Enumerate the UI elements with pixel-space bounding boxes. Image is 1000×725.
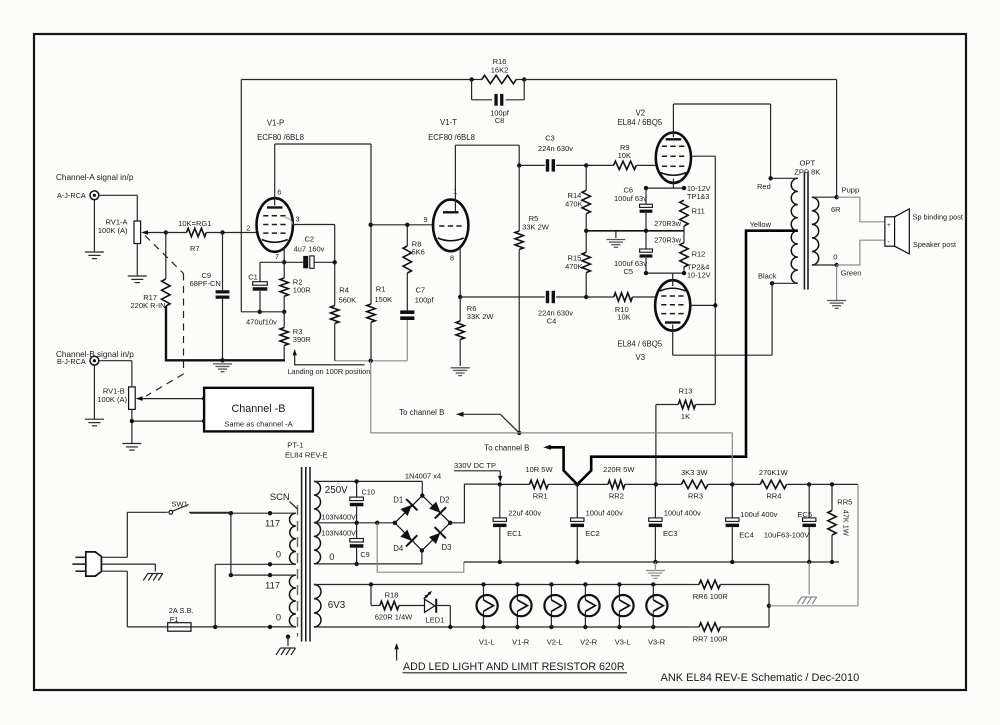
svg-text:V2: V2	[636, 109, 646, 118]
svg-text:117: 117	[265, 518, 280, 528]
resistor R1 150K	[370, 144, 372, 225]
wire V2 plate to OPT Red	[672, 104, 674, 137]
node R7/C9 junction	[220, 230, 224, 234]
wire LED to heater return	[436, 605, 450, 607]
svg-text:4u7 160v: 4u7 160v	[294, 244, 325, 253]
svg-text:V1-T: V1-T	[440, 118, 457, 127]
diode D2	[429, 502, 440, 513]
resistor R10 10K	[586, 296, 614, 298]
svg-text:V1-L: V1-L	[479, 638, 495, 647]
wire V3 screen	[690, 304, 715, 306]
svg-text:Channel-A signal in/p: Channel-A signal in/p	[56, 173, 134, 182]
node EC3 bottom	[653, 560, 657, 564]
secondary bottom lead 0	[812, 264, 837, 266]
arrow to channel B upper	[462, 413, 501, 415]
svg-text:10K: 10K	[617, 313, 630, 322]
svg-text:10uF63-100V: 10uF63-100V	[764, 530, 809, 539]
wire 0 to bridge bottom	[421, 551, 423, 564]
node EC4 bottom	[730, 560, 734, 564]
svg-text:V1-R: V1-R	[512, 638, 530, 647]
capacitor C2 4u7	[303, 256, 308, 268]
capacitor C9 psu	[356, 523, 358, 539]
ganged pot dashed link	[145, 236, 184, 397]
V1-P plate supply line	[275, 143, 371, 145]
svg-text:33K 2W: 33K 2W	[522, 222, 550, 231]
node C10 top	[354, 479, 358, 483]
svg-text:To channel B: To channel B	[399, 408, 444, 417]
capacitor EC3 100uf	[654, 484, 656, 518]
V1-P screen wire pin 3	[285, 218, 293, 225]
speaker binding post	[885, 217, 895, 246]
node channel B tap	[517, 431, 521, 435]
wire Red lead	[771, 177, 798, 179]
lamp V2-R	[583, 582, 587, 586]
svg-text:To channel B: To channel B	[484, 443, 529, 452]
svg-text:9: 9	[424, 215, 428, 224]
PT secondary 250V winding	[314, 481, 321, 564]
node C9 ground rail	[220, 358, 224, 362]
svg-text:16K2: 16K2	[491, 65, 509, 74]
svg-text:100K (A): 100K (A)	[98, 226, 128, 235]
wire jack A to RV1-A	[99, 194, 138, 196]
node R2/R3 junction	[282, 310, 286, 314]
resistor R3 390R	[283, 312, 285, 328]
OPT core	[803, 172, 805, 290]
resistor R5 33K 2W	[518, 165, 520, 231]
svg-text:100uf 400v: 100uf 400v	[664, 508, 701, 517]
svg-text:C7: C7	[416, 285, 426, 294]
resistor RR5 47K	[831, 484, 833, 510]
wire R16 right to OPT Pupp tap	[524, 79, 836, 81]
svg-text:TP1&3: TP1&3	[687, 192, 709, 201]
node C3 tap	[517, 163, 521, 167]
svg-text:R12: R12	[692, 249, 706, 258]
resistor R6 33K 2W	[459, 297, 461, 321]
B+ rail RR1	[500, 483, 530, 485]
node mid divider	[584, 229, 588, 233]
svg-text:V3: V3	[636, 353, 646, 362]
wire B+ feed down to channel B line	[370, 361, 372, 433]
wire RV1-B bottom to box	[132, 420, 204, 422]
svg-text:620R 1/4W: 620R 1/4W	[375, 613, 413, 622]
lamp V2-L	[549, 582, 553, 586]
wire cathode node	[260, 261, 303, 263]
svg-text:EL84 / 6BQ5: EL84 / 6BQ5	[617, 118, 662, 127]
ground under RV1-B	[122, 444, 141, 451]
wire feedback node	[241, 311, 284, 313]
svg-text:ECF80 /6BL8: ECF80 /6BL8	[257, 133, 304, 142]
resistor R16	[482, 75, 517, 83]
svg-text:2A S.B.: 2A S.B.	[169, 606, 194, 615]
capacitor C1 470uf	[259, 262, 261, 281]
wire R13 left down to B+ rail	[655, 405, 657, 485]
svg-text:C5: C5	[624, 267, 634, 276]
svg-text:C3: C3	[545, 134, 555, 143]
chassis ground psu	[808, 562, 810, 595]
resistor RR7 100R	[690, 626, 699, 628]
center tap lead	[314, 522, 395, 524]
node C2 right / R4 top	[333, 260, 337, 264]
node 330V rail start	[498, 482, 502, 486]
PT shield SCN dashed	[297, 505, 299, 637]
svg-text:390R: 390R	[293, 335, 312, 344]
svg-text:3: 3	[296, 215, 300, 224]
node RR2/RR3	[654, 482, 658, 486]
PT secondary 6V3 winding	[314, 585, 321, 628]
svg-text:D3: D3	[442, 543, 452, 552]
resistor R17 220K	[165, 233, 167, 280]
svg-text:C9: C9	[360, 550, 369, 559]
svg-text:7: 7	[275, 252, 279, 261]
lamp V3-L	[617, 582, 621, 586]
svg-text:Yellow: Yellow	[750, 220, 772, 229]
wire 0 to ground	[836, 265, 838, 300]
wire feedback top horizontal	[241, 79, 471, 81]
node cathode/C4/R6	[458, 295, 462, 299]
resistor R9 10K	[586, 164, 613, 166]
svg-text:100pf: 100pf	[415, 296, 435, 305]
capacitor C8 parallel to R16	[471, 80, 473, 100]
node C10/C9 junction	[354, 521, 358, 525]
pentode V2	[656, 133, 691, 183]
node Red	[768, 176, 772, 180]
svg-text:33K 2W: 33K 2W	[467, 312, 495, 321]
wire live	[101, 556, 127, 558]
ground stub mid rail	[615, 231, 617, 238]
node C6 bottom	[644, 229, 648, 233]
svg-text:6: 6	[277, 187, 281, 196]
wire jack B to RV1-B	[99, 360, 132, 362]
wire plate line down / R5 chain	[518, 145, 520, 165]
svg-text:330V DC TP: 330V DC TP	[454, 461, 496, 470]
resistor R2 100R	[283, 262, 285, 278]
svg-text:10R 5W: 10R 5W	[525, 465, 553, 474]
svg-text:EL84 / 6BQ5: EL84 / 6BQ5	[617, 339, 662, 348]
ground rail channel A	[166, 306, 285, 360]
wire Black lead	[772, 282, 798, 284]
capacitor C5 100uf	[645, 231, 647, 249]
svg-text:Same as channel -A: Same as channel -A	[224, 419, 293, 428]
svg-text:PT-1: PT-1	[287, 441, 303, 450]
svg-text:100R: 100R	[293, 285, 312, 294]
resistor R11 270R	[680, 200, 688, 226]
node EC2 bottom	[575, 560, 579, 564]
node Black	[770, 281, 774, 285]
svg-text:6V3: 6V3	[328, 600, 346, 611]
svg-text:103N400V: 103N400V	[321, 513, 356, 522]
wire RV1-B bottom	[131, 409, 133, 443]
svg-text:8: 8	[450, 254, 454, 263]
svg-text:V2-L: V2-L	[547, 638, 563, 647]
svg-text:47K 1W: 47K 1W	[842, 510, 851, 536]
LED1	[425, 599, 435, 612]
B+ rail RR3	[656, 483, 682, 485]
diode D4	[400, 530, 411, 541]
diode D3	[429, 533, 440, 544]
svg-text:V2-R: V2-R	[580, 638, 598, 647]
svg-text:5K6: 5K6	[412, 247, 425, 256]
wire V1-P cathode pin 7	[283, 248, 285, 263]
svg-text:10K: 10K	[618, 151, 631, 160]
wire heater elevation	[857, 484, 859, 605]
svg-text:R4: R4	[339, 285, 349, 294]
capacitor C6 100uf	[645, 188, 647, 204]
svg-text:0: 0	[276, 550, 281, 560]
diode D1	[401, 505, 412, 516]
wire bridge top	[421, 481, 423, 495]
node C4/R15/R10	[584, 295, 588, 299]
svg-text:V3-R: V3-R	[648, 638, 666, 647]
wire 117 parallel jumper	[230, 513, 232, 575]
svg-text:EC4: EC4	[739, 530, 754, 539]
OPT secondary winding	[812, 197, 819, 265]
resistor R4 560K	[331, 306, 339, 324]
svg-text:D1: D1	[393, 496, 403, 505]
wire V3 cathode	[672, 273, 674, 286]
svg-text:3K3 3W: 3K3 3W	[681, 468, 709, 477]
svg-text:560K: 560K	[339, 296, 357, 305]
cathode node V2	[646, 187, 684, 189]
svg-text:100uf 63v: 100uf 63v	[614, 194, 647, 203]
svg-text:Landing on 100R position: Landing on 100R position	[288, 367, 371, 376]
node R16 right	[522, 77, 526, 81]
node RV1-B bottom	[130, 419, 134, 423]
svg-text:C10: C10	[362, 487, 375, 496]
svg-text:V3-L: V3-L	[615, 638, 631, 647]
node R16 left	[469, 77, 473, 81]
node V1-T pin9 tap	[369, 223, 373, 227]
resistor RR6 100R	[690, 584, 699, 586]
svg-text:Pupp: Pupp	[842, 185, 860, 194]
capacitor EC1 22uf	[499, 484, 501, 518]
svg-text:D2: D2	[440, 496, 450, 505]
svg-text:C1: C1	[248, 272, 258, 281]
capacitor C10	[356, 481, 358, 497]
annotation arrow Landing on 100R position	[295, 353, 365, 365]
triode V1-T	[433, 200, 468, 252]
resistor R14 470K	[582, 190, 590, 214]
svg-text:R13: R13	[679, 386, 693, 395]
resistor R13 1K	[656, 404, 678, 406]
svg-text:Speaker post: Speaker post	[913, 240, 956, 249]
heater rail top	[314, 584, 690, 586]
svg-text:A-J-RCA: A-J-RCA	[57, 191, 86, 200]
capacitor C3 224n	[519, 164, 545, 166]
ground under jack B	[93, 365, 95, 419]
wire V2 screen	[691, 155, 716, 157]
svg-text:B-J-RCA: B-J-RCA	[57, 357, 86, 366]
node RR1/RR2 (B+ tap)	[575, 482, 579, 486]
bridge vertex bottom	[420, 548, 424, 552]
wire neutral	[101, 570, 127, 572]
mid rail to cathode caps	[586, 230, 684, 232]
svg-text:150K: 150K	[375, 295, 393, 304]
PT primary winding lower 117V	[289, 575, 295, 627]
wire bridge DC+ to rail	[450, 484, 500, 523]
node C3/R14/R9	[584, 163, 588, 167]
arrow 330V TP	[499, 471, 501, 479]
svg-text:10-12V: 10-12V	[687, 271, 711, 280]
ground speaker 0	[827, 301, 846, 309]
bridge rectifier 1N4007 x4	[395, 496, 450, 551]
potentiometer RV1-A	[134, 221, 141, 244]
svg-text:Channel -B: Channel -B	[231, 403, 285, 415]
svg-text:Green: Green	[841, 268, 862, 277]
capacitor EC5 10uF	[808, 484, 810, 518]
svg-text:SW1: SW1	[172, 500, 188, 509]
svg-text:D4: D4	[393, 544, 404, 553]
capacitor C7 100pf	[400, 310, 414, 314]
svg-text:100K (A): 100K (A)	[97, 395, 127, 404]
wire 0 jumper	[214, 564, 216, 627]
svg-text:LED1: LED1	[426, 615, 445, 624]
svg-text:270K1W: 270K1W	[759, 468, 789, 477]
svg-text:RR5: RR5	[837, 498, 852, 507]
PT core	[301, 467, 303, 642]
chassis ground mains	[143, 574, 163, 581]
node EC1 bottom	[498, 560, 502, 564]
lamp V3-R	[651, 582, 655, 586]
wire V3 plate to OPT Black	[672, 325, 674, 356]
svg-text:EC1: EC1	[507, 529, 522, 538]
wire V1-P plate pin 6 to plate line	[274, 144, 276, 206]
wire V1-T plate pin 1	[454, 145, 456, 211]
0V rail	[464, 561, 839, 563]
svg-text:EC3: EC3	[663, 529, 678, 538]
svg-text:0: 0	[276, 612, 281, 622]
svg-text:C8: C8	[495, 116, 505, 125]
wire 0 to speaker minus	[837, 240, 885, 265]
svg-text:R11: R11	[692, 206, 705, 215]
svg-text:RR6 100R: RR6 100R	[693, 592, 729, 601]
svg-text:Sp binding post: Sp binding post	[913, 213, 963, 222]
svg-text:270R3w: 270R3w	[654, 219, 682, 228]
capacitor EC2 100uf	[576, 484, 578, 518]
svg-text:C4: C4	[547, 316, 557, 325]
capacitor C4 224n	[460, 296, 545, 298]
resistor R15 470K	[582, 252, 590, 272]
capacitor C9 68PF	[222, 233, 224, 291]
OPT primary winding	[791, 178, 798, 283]
node R8 top	[405, 223, 409, 227]
wire center tap to 0V rail	[377, 523, 464, 572]
svg-text:EC2: EC2	[585, 529, 600, 538]
svg-text:R1: R1	[376, 285, 386, 294]
wire C2 node down to R4	[334, 262, 336, 305]
svg-text:470uf10v: 470uf10v	[246, 318, 277, 327]
node C1 bottom	[258, 310, 262, 314]
capacitor EC4 100uf	[731, 484, 733, 518]
svg-text:117: 117	[265, 581, 280, 591]
wire feedback top from node FB-left down to R3/C1 node	[240, 80, 242, 312]
svg-text:470K: 470K	[565, 199, 583, 208]
svg-text:ADD LED LIGHT AND LIMIT RESIST: ADD LED LIGHT AND LIMIT RESISTOR 620R	[403, 661, 625, 673]
node RR5 top	[830, 482, 834, 486]
svg-text:0: 0	[833, 253, 837, 262]
svg-text:0: 0	[329, 552, 334, 562]
node EC5 top	[807, 482, 811, 486]
ground below rail at C9	[213, 364, 232, 372]
svg-text:100uf 400v: 100uf 400v	[586, 508, 623, 517]
svg-text:470K: 470K	[565, 262, 583, 271]
svg-text:+: +	[887, 222, 891, 229]
svg-text:1N4007 x4: 1N4007 x4	[405, 472, 441, 481]
B+ rail RR4	[732, 483, 760, 485]
RV1-B wiper arrow from channel B box	[139, 398, 204, 400]
node R17 top / wiper	[164, 230, 168, 234]
svg-text:250V: 250V	[325, 485, 348, 496]
svg-text:68PF-CN: 68PF-CN	[190, 279, 221, 288]
node box wiper	[202, 396, 206, 400]
triode-pentode V1-P	[257, 198, 293, 252]
heater rail bottom	[314, 626, 690, 628]
svg-text:RR1: RR1	[533, 491, 548, 500]
svg-text:R18: R18	[385, 591, 399, 600]
wire V1-T cathode pin 8	[459, 248, 461, 298]
svg-text:6R: 6R	[831, 205, 841, 214]
svg-text:ECF80 /6BL8: ECF80 /6BL8	[428, 133, 475, 142]
svg-text:Red: Red	[757, 182, 771, 191]
secondary 0 lead	[314, 563, 422, 565]
annotation arrow LED note	[396, 646, 398, 661]
ground under jack A	[93, 200, 95, 252]
V1-T plate line	[455, 144, 519, 146]
wire earth	[101, 563, 155, 565]
svg-text:220R 5W: 220R 5W	[603, 465, 635, 474]
node EC5 bottom	[807, 560, 811, 564]
svg-text:224n 630v: 224n 630v	[538, 144, 573, 153]
svg-text:EL84 REV-E: EL84 REV-E	[285, 450, 328, 459]
resistor R12 270R	[680, 243, 688, 267]
svg-text:ANK EL84 REV-E Schematic / Dec: ANK EL84 REV-E Schematic / Dec-2010	[661, 672, 860, 684]
ground 0V rail	[654, 562, 656, 570]
svg-text:V1-P: V1-P	[267, 118, 284, 127]
secondary top lead Pupp	[812, 196, 837, 198]
channel B box	[204, 388, 313, 432]
svg-text:270R3w: 270R3w	[654, 235, 682, 244]
bridge vertex top	[420, 493, 424, 497]
resistor R18 620R	[369, 582, 373, 586]
svg-text:10K=RG1: 10K=RG1	[178, 219, 211, 228]
node C9 bottom	[354, 562, 358, 566]
B+ rail end	[809, 483, 858, 485]
lamp V1-R	[515, 582, 519, 586]
svg-text:Black: Black	[758, 271, 777, 280]
primary leads	[190, 512, 296, 514]
svg-text:RR4: RR4	[766, 491, 781, 500]
svg-text:2: 2	[246, 224, 250, 233]
wire RV1-A bottom to ground	[136, 244, 138, 277]
B+ rail RR2	[577, 483, 608, 485]
resistor R8 5K6	[406, 225, 408, 246]
cathode node V3	[646, 272, 684, 274]
wire 6R to speaker plus	[837, 197, 885, 222]
node cathode/R2/C2	[282, 260, 286, 264]
wire channel B distribution	[371, 432, 520, 434]
svg-text:1K: 1K	[681, 412, 690, 421]
resistor R7 10K grid stopper	[187, 228, 207, 236]
svg-text:EC5: EC5	[797, 510, 812, 519]
PT primary winding upper 117V	[290, 513, 296, 564]
node RR5 bottom	[830, 560, 834, 564]
svg-text:100uf 400v: 100uf 400v	[740, 510, 777, 519]
mains plug	[86, 552, 102, 576]
PT chassis ground	[286, 635, 290, 639]
svg-text:RR2: RR2	[609, 491, 624, 500]
secondary 250V top lead	[314, 480, 422, 482]
B+ feed rail front end	[335, 360, 407, 362]
bridge vertex right	[448, 521, 452, 525]
